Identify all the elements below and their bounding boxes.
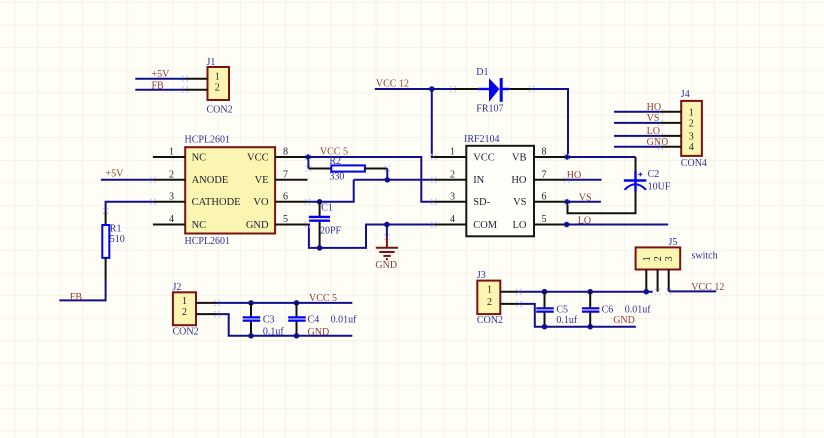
wire VB to C2 top: [567, 156, 636, 158]
junction C3 top: [248, 300, 254, 306]
svg-text:CON2: CON2: [173, 327, 199, 338]
J5 pin 2 lead: [657, 270, 659, 292]
HCPL2601 pin 8 VCC: [275, 156, 307, 158]
capacitor C2 bottom pin routed to VS: [568, 192, 636, 214]
HCPL2601 pin 7 VE: [275, 179, 307, 181]
svg-text:J4: J4: [681, 89, 690, 100]
wire R2 to IN node: [386, 169, 388, 180]
svg-text:HO: HO: [567, 170, 581, 181]
wire J2 pin 2 to GND rail: [217, 314, 352, 336]
svg-text:330: 330: [329, 171, 344, 182]
junction C6 bottom: [587, 324, 593, 330]
svg-text:VS: VS: [513, 197, 527, 208]
svg-text:1: 1: [450, 147, 455, 158]
wire VS to J4 pin 2: [614, 122, 660, 124]
svg-text:D1: D1: [476, 67, 488, 78]
J4 pin 1: [660, 111, 681, 113]
capacitor C5 plates: [536, 307, 554, 309]
svg-text:ANODE: ANODE: [192, 175, 229, 186]
J3 pin 2: [500, 303, 518, 305]
capacitor C6 leads: [589, 292, 591, 308]
capacitor C5 leads: [544, 292, 546, 308]
svg-text:4: 4: [689, 142, 694, 153]
wire CATHODE pin 3 to R1: [106, 202, 153, 211]
svg-text:4: 4: [450, 214, 455, 225]
GND power symbol stem: [386, 225, 388, 238]
resistor R1 bottom lead: [105, 258, 107, 280]
diode D1 symbol FR107: [478, 88, 489, 90]
junction C1 top on VO wire: [317, 199, 323, 205]
svg-text:HO: HO: [647, 102, 661, 113]
junction C1 bottom: [317, 245, 323, 251]
svg-text:3: 3: [689, 131, 694, 142]
svg-text:2: 2: [215, 83, 220, 94]
svg-text:HCPL2601: HCPL2601: [185, 236, 231, 247]
IRF2104 pin 6 VS: [534, 201, 567, 203]
wire J5 pin 3 to VCC 12: [669, 290, 717, 292]
connector J4 CON4 body: [681, 101, 702, 156]
HCPL2601 pin 6 VO: [275, 201, 307, 203]
HCPL2601 pin 2 ANODE: [153, 179, 185, 181]
svg-text:GND: GND: [308, 327, 330, 338]
junction J5 pin 1 on rail: [644, 289, 650, 295]
svg-text:GND: GND: [613, 315, 635, 326]
svg-text:switch: switch: [692, 251, 718, 262]
svg-text:0.01uf: 0.01uf: [625, 304, 652, 315]
svg-text:7: 7: [542, 170, 547, 181]
capacitor C4 leads: [296, 303, 298, 317]
op-amp U2 IRF2104 body: [466, 146, 534, 237]
svg-text:GND: GND: [246, 220, 269, 231]
HCPL2601 pin 1 NC: [153, 156, 185, 158]
svg-text:2: 2: [487, 297, 492, 308]
svg-text:R1: R1: [110, 224, 122, 235]
svg-text:R2: R2: [329, 156, 341, 167]
wire HO pin 7 stub: [567, 179, 602, 181]
svg-text:2: 2: [182, 307, 187, 318]
svg-text:LO: LO: [513, 220, 527, 231]
svg-text:C2: C2: [648, 169, 660, 180]
wire VS pin 6 stub: [567, 201, 601, 203]
junction VCC12 branch: [429, 86, 435, 92]
J4 pin 4: [660, 146, 681, 148]
svg-text:C4: C4: [308, 315, 320, 326]
diode D1 anode lead: [453, 88, 478, 90]
connector J3 CON2 body: [477, 281, 500, 315]
svg-text:SD-: SD-: [473, 197, 490, 208]
wire VO pin 6 jog up to IN wire: [308, 180, 354, 202]
J4 pin 2: [660, 122, 681, 124]
svg-text:1: 1: [642, 256, 653, 261]
svg-text:8: 8: [542, 147, 547, 158]
resistor R1 body: [102, 225, 109, 258]
svg-text:510: 510: [110, 234, 125, 245]
svg-text:1: 1: [689, 107, 694, 118]
svg-text:C6: C6: [602, 304, 614, 315]
svg-text:4: 4: [169, 214, 174, 225]
IRF2104 pin 2 IN: [434, 179, 467, 181]
svg-text:VCC: VCC: [247, 152, 269, 163]
junction C6 top: [587, 289, 593, 295]
svg-text:1: 1: [215, 72, 220, 83]
svg-text:VCC 5: VCC 5: [309, 293, 337, 304]
svg-text:3: 3: [169, 192, 174, 203]
svg-text:3: 3: [450, 192, 455, 203]
svg-text:2: 2: [689, 118, 694, 129]
IRF2104 pin 8 VB: [534, 156, 567, 158]
capacitor C1 bottom lead: [319, 222, 321, 248]
J1 pin 1: [185, 78, 208, 80]
junction C5 top: [542, 289, 548, 295]
svg-text:NC: NC: [192, 220, 207, 231]
wire J2 pin 1 to VCC 5: [217, 302, 352, 304]
junction LO node: [564, 222, 570, 228]
svg-text:2: 2: [450, 170, 455, 181]
resistor R1 top lead: [105, 211, 107, 225]
svg-text:VO: VO: [253, 197, 269, 208]
svg-text:CON2: CON2: [207, 105, 233, 116]
svg-text:10UF: 10UF: [648, 182, 671, 193]
junction at VCC pin 8: [306, 154, 312, 160]
svg-text:FB: FB: [152, 81, 165, 92]
J4 pin 3: [660, 135, 681, 137]
capacitor C2 plus sign: [638, 172, 642, 176]
svg-text:IRF2104: IRF2104: [464, 134, 500, 145]
svg-text:CON4: CON4: [681, 158, 707, 169]
resistor R2 left lead: [308, 168, 331, 170]
svg-text:0.1uf: 0.1uf: [263, 327, 285, 338]
wire junction down to R2: [307, 157, 309, 169]
svg-text:1: 1: [182, 296, 187, 307]
svg-text:5: 5: [283, 214, 288, 225]
IRF2104 pin 5 LO: [534, 224, 567, 226]
capacitor C4 plates: [288, 316, 306, 318]
svg-text:8: 8: [283, 147, 288, 158]
wire D1 to VB pin 8: [532, 89, 568, 157]
capacitor C2 polarized symbol: [634, 171, 636, 184]
junction GND symbol node: [384, 222, 390, 228]
svg-text:0.1uf: 0.1uf: [556, 315, 578, 326]
svg-text:1: 1: [169, 147, 174, 158]
capacitor C1 top lead: [319, 202, 321, 216]
svg-text:CON2: CON2: [477, 315, 503, 326]
svg-text:6: 6: [542, 192, 547, 203]
svg-text:1: 1: [487, 285, 492, 296]
junction R2/VO/IN node: [385, 177, 391, 183]
svg-text:3: 3: [664, 256, 675, 261]
svg-text:VCC: VCC: [473, 152, 495, 163]
svg-text:7: 7: [283, 170, 288, 181]
svg-text:CATHODE: CATHODE: [192, 197, 241, 208]
svg-text:20PF: 20PF: [320, 226, 342, 237]
IRF2104 pin 3 SD-: [434, 201, 467, 203]
svg-text:IN: IN: [473, 175, 484, 186]
wire J3 pin 2 to GND rail: [519, 304, 636, 327]
svg-text:J5: J5: [669, 237, 678, 248]
connector J2 CON2 body: [173, 292, 196, 325]
hotspot markers: [182, 76, 184, 78]
resistor R2 body: [331, 165, 365, 171]
svg-text:J3: J3: [477, 270, 486, 281]
J3 pin 1: [500, 291, 518, 293]
svg-text:C1: C1: [321, 203, 333, 214]
svg-text:VCC 12: VCC 12: [691, 282, 724, 293]
J5 pin 1 lead: [645, 270, 647, 292]
wire R1 to FB: [59, 280, 105, 300]
svg-text:+5V: +5V: [106, 168, 125, 179]
junction C3 bottom: [248, 333, 254, 339]
junction C5 bottom: [542, 324, 548, 330]
wire J3 pin 1 rail to J5: [519, 291, 653, 293]
svg-text:C3: C3: [263, 315, 275, 326]
HCPL2601 pin 3 CATHODE: [153, 201, 185, 203]
svg-text:VE: VE: [255, 175, 269, 186]
HCPL2601 pin 5 GND: [275, 224, 307, 226]
capacitor C3 plates: [243, 316, 261, 318]
junction C4 top: [294, 300, 300, 306]
svg-text:NC: NC: [192, 152, 207, 163]
IRF2104 pin 7 HO: [534, 179, 567, 181]
junction C4 bottom: [294, 333, 300, 339]
capacitor C6 plates: [582, 307, 600, 309]
wire +5V to J1 pin 1: [135, 78, 185, 80]
svg-text:VCC 12: VCC 12: [376, 79, 409, 90]
wire VCC12 down to IRF2104 VCC pin 1: [432, 89, 434, 157]
svg-text:0.01uf: 0.01uf: [331, 315, 358, 326]
IRF2104 pin 4 COM: [434, 224, 467, 226]
IRF2104 pin 1 VCC: [434, 156, 467, 158]
wire +5V to ANODE pin 2: [101, 179, 153, 181]
svg-text:2: 2: [653, 256, 664, 261]
svg-text:HO: HO: [511, 175, 527, 186]
svg-text:5: 5: [542, 214, 547, 225]
junction VB pin 8 node: [565, 154, 571, 160]
svg-text:FR107: FR107: [476, 104, 503, 115]
J1 pin 2: [185, 89, 208, 91]
wire FB to J1 pin 2: [135, 89, 185, 91]
diode D1 cathode lead: [509, 88, 531, 90]
svg-text:GND: GND: [375, 260, 397, 271]
connector J1 CON2 body: [208, 67, 230, 100]
svg-text:C5: C5: [556, 304, 568, 315]
svg-text:COM: COM: [473, 220, 498, 231]
GND power symbol bars: [376, 247, 398, 249]
svg-text:VS: VS: [579, 192, 592, 203]
wire GND pin 5 routed to COM pin 4: [308, 225, 434, 248]
svg-text:VB: VB: [512, 152, 527, 163]
wire HO to J4 pin 1: [614, 111, 660, 113]
wire GND to J4 pin 4: [614, 146, 660, 148]
wire to IRF2104 IN pin 2: [354, 179, 434, 181]
wire VCC pin 8 to SD- with VCC 5 label: [308, 157, 434, 202]
capacitor C2 top pin: [635, 157, 637, 171]
resistor R2 right lead: [365, 168, 387, 170]
junction VS node: [565, 199, 571, 205]
J2 pin 2: [196, 313, 217, 315]
op-amp U1 HCPL2601 body: [185, 147, 275, 233]
wire LO pin 5 long stub: [567, 224, 669, 226]
wire LO to J4 pin 3: [614, 135, 660, 137]
wire VCC 12 horizontal: [375, 88, 453, 90]
svg-text:LO: LO: [578, 215, 591, 226]
svg-text:2: 2: [169, 170, 174, 181]
svg-text:6: 6: [283, 192, 288, 203]
capacitor C1 plates: [309, 216, 330, 218]
svg-text:LO: LO: [647, 126, 660, 137]
svg-text:HCPL2601: HCPL2601: [185, 135, 231, 146]
connector J5 switch body: [636, 247, 681, 269]
svg-text:J2: J2: [173, 282, 182, 293]
svg-text:+5V: +5V: [152, 69, 171, 80]
capacitor C3 leads: [250, 303, 252, 317]
HCPL2601 pin 4 NC: [153, 224, 185, 226]
J5 pin 3 lead: [668, 270, 670, 292]
svg-text:FB: FB: [70, 292, 83, 303]
J2 pin 1: [196, 302, 217, 304]
svg-text:J1: J1: [207, 57, 216, 68]
